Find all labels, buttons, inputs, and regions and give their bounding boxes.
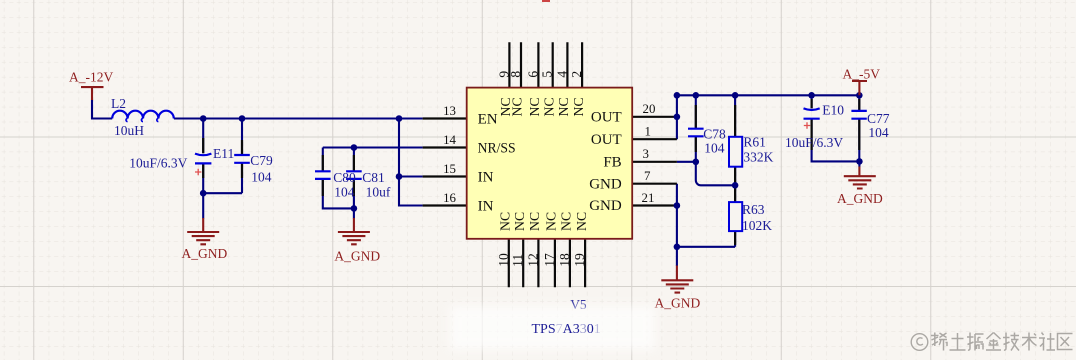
svg-text:11: 11: [510, 254, 525, 267]
svg-text:NC: NC: [574, 212, 589, 231]
svg-text:EN: EN: [478, 111, 498, 127]
svg-text:A_GND: A_GND: [182, 246, 228, 261]
svg-text:E11: E11: [213, 146, 234, 161]
svg-text:NC: NC: [541, 97, 556, 116]
svg-text:IN: IN: [478, 169, 494, 185]
svg-text:OUT: OUT: [591, 132, 622, 148]
svg-text:1: 1: [645, 125, 651, 139]
svg-text:C80: C80: [333, 170, 356, 185]
svg-text:13: 13: [443, 104, 456, 118]
svg-text:102K: 102K: [742, 218, 772, 233]
svg-text:10uH: 10uH: [114, 123, 144, 138]
svg-text:16: 16: [443, 191, 456, 205]
svg-text:NC: NC: [559, 212, 574, 231]
svg-text:21: 21: [642, 191, 655, 205]
svg-text:L2: L2: [111, 96, 126, 111]
svg-text:12: 12: [525, 253, 540, 267]
svg-text:IN: IN: [478, 198, 494, 214]
svg-text:A_-12V: A_-12V: [69, 70, 113, 85]
svg-text:R61: R61: [743, 135, 766, 150]
svg-text:A_GND: A_GND: [334, 248, 380, 263]
svg-text:104: 104: [251, 170, 271, 185]
svg-text:TPS7A3301: TPS7A3301: [532, 322, 601, 337]
svg-text:7: 7: [644, 169, 651, 183]
svg-text:A_GND: A_GND: [655, 296, 701, 311]
svg-text:GND: GND: [589, 198, 622, 214]
svg-text:3: 3: [643, 147, 649, 161]
svg-text:NR/SS: NR/SS: [478, 140, 516, 156]
svg-text:4: 4: [554, 71, 569, 78]
svg-text:NC: NC: [544, 212, 559, 231]
svg-text:10: 10: [496, 253, 511, 267]
svg-text:C79: C79: [250, 153, 273, 168]
svg-text:E10: E10: [822, 102, 844, 117]
svg-text:2: 2: [569, 71, 584, 78]
svg-text:NC: NC: [510, 97, 525, 116]
svg-text:332K: 332K: [743, 149, 773, 164]
svg-text:10uf: 10uf: [366, 184, 391, 199]
svg-text:17: 17: [542, 253, 557, 267]
svg-text:104: 104: [868, 125, 889, 140]
svg-text:GND: GND: [589, 176, 622, 192]
svg-text:A_-5V: A_-5V: [843, 67, 881, 82]
svg-text:104: 104: [334, 184, 355, 199]
svg-text:NC: NC: [571, 97, 586, 116]
svg-text:NC: NC: [556, 97, 571, 116]
svg-text:C81: C81: [362, 170, 385, 185]
svg-text:8: 8: [508, 71, 523, 78]
svg-text:NC: NC: [498, 212, 513, 231]
svg-text:18: 18: [557, 253, 572, 267]
svg-text:A_GND: A_GND: [837, 191, 883, 206]
svg-text:OUT: OUT: [591, 110, 622, 126]
svg-text:FB: FB: [603, 155, 621, 171]
svg-text:10uF/6.3V: 10uF/6.3V: [129, 156, 187, 171]
svg-text:6: 6: [525, 71, 540, 78]
svg-text:15: 15: [443, 162, 456, 176]
svg-text:NC: NC: [512, 212, 527, 231]
svg-text:NC: NC: [527, 97, 542, 116]
svg-text:C77: C77: [867, 111, 890, 126]
svg-text:19: 19: [572, 253, 587, 267]
svg-text:NC: NC: [527, 212, 542, 231]
svg-text:14: 14: [443, 133, 456, 147]
svg-text:104: 104: [704, 140, 725, 155]
svg-text:R63: R63: [742, 202, 765, 217]
svg-text:10uF/6.3V: 10uF/6.3V: [785, 135, 843, 150]
svg-text:5: 5: [540, 71, 555, 78]
svg-text:20: 20: [643, 102, 656, 116]
